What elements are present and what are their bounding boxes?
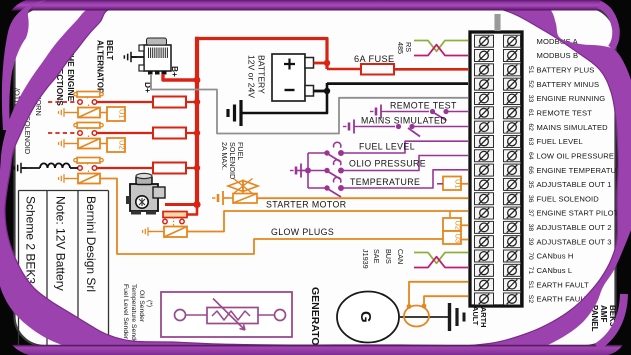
svg-text:J1939: J1939 [361,249,370,269]
solenoid actuator box [233,194,257,204]
terminal row CANbus H 70 [475,250,574,262]
switch temperature sender [324,170,468,197]
label THE ENGINE CONNECTIONS [55,44,76,106]
switch fuel level sender [324,141,468,162]
svg-text:ADJUSTABLE OUT 3: ADJUSTABLE OUT 3 [537,237,612,246]
svg-text:51: 51 [527,66,534,74]
svg-text:S1: S1 [527,280,534,289]
label EARTH FAULT vertical [471,302,488,327]
svg-text:GLOW PLUGS: GLOW PLUGS [271,227,334,237]
svg-text:71: 71 [527,267,534,275]
wire red B+ from alternator [163,74,196,80]
wire red main vertical bus [195,37,199,205]
switch S mains simulated [360,124,468,137]
svg-text:FUEL SOLENOID: FUEL SOLENOID [537,194,600,203]
wire red bus to starter relay contact [187,205,197,215]
terminal row MODBUS B [475,50,579,62]
svg-text:38: 38 [527,224,534,232]
label STARTER MOTOR [266,200,346,210]
svg-text:S2: S2 [527,295,534,304]
terminal row MODBUS A [475,35,579,47]
connector plug fuel solenoid [212,191,233,205]
svg-text:MAINS SIMULATED: MAINS SIMULATED [361,116,447,126]
label Bernini Design Srl [84,196,98,292]
label Note: 12V Battery [54,196,68,291]
wire black battery minus [242,83,468,113]
svg-text:37: 37 [527,209,534,217]
svg-text:33: 33 [527,95,534,103]
label CAN BUS SAE J1939 [361,249,405,269]
connector plug remote test [370,105,387,119]
ground L1 [14,163,26,173]
valve fuel solenoid [228,179,258,194]
svg-text:FUEL LEVEL: FUEL LEVEL [537,137,583,146]
relay K4 coil box [164,227,187,238]
corner arc bottom-right [597,294,624,347]
wire CAN twisted pair [414,253,468,264]
svg-text:62: 62 [527,123,534,131]
svg-text:36: 36 [527,195,534,203]
ground battery GND1 [228,100,241,126]
svg-text:39: 39 [527,238,534,246]
wire red battery plus to terminal 51 [394,68,468,71]
corner black top-right [600,0,631,68]
terminal row LOW OIL PRESSURE 64 [475,150,615,162]
label /HORN /STOP SOLENOID /OTHER [13,88,44,154]
relay K2 (stop solenoid) with fuse F2 and module U2 [48,132,76,134]
label GLOW PLUGS [271,227,334,237]
terminal block TB1 [470,32,522,306]
connector plug mains simulated [343,120,360,134]
svg-text:BATTERY PLUS: BATTERY PLUS [537,66,595,75]
svg-text:ENGINE START PILOT: ENGINE START PILOT [537,209,619,218]
wire orange earth fault S2 [424,296,468,304]
svg-text:ALTERNATOR: ALTERNATOR [96,40,105,94]
svg-text:STARTER MOTOR: STARTER MOTOR [266,200,346,210]
ground K4 [143,227,164,236]
label oil/temperature/fuel senders [122,284,153,347]
label MAINS SIMULATED [361,116,447,126]
svg-text:BUS: BUS [384,249,393,264]
svg-text:ADJUSTABLE OUT 2: ADJUSTABLE OUT 2 [537,223,612,232]
svg-text:CANbus L: CANbus L [537,266,573,275]
svg-text:BATTERY MINUS: BATTERY MINUS [537,80,600,89]
label OLIO PRESSURE [349,159,426,169]
svg-text:LOW OIL PRESSURE: LOW OIL PRESSURE [537,151,615,160]
svg-text:12V or 24V: 12V or 24V [247,55,257,98]
svg-text:485: 485 [396,42,405,54]
svg-text:U3: U3 [454,234,463,244]
label TEMPERATURE [350,177,420,187]
label 6A FUSE [354,54,395,64]
relay K3 (coil) with fuse F3 [78,166,97,171]
switch S remote test [387,109,468,121]
svg-text:TEMPERATURE: TEMPERATURE [350,177,420,187]
alternator G1 [124,38,171,75]
label FUEL SOLENOID 2A MAX [220,142,245,179]
label FUEL LEVEL [359,142,415,152]
svg-text:BELT: BELT [105,40,114,60]
svg-text:MODBUS B: MODBUS B [537,51,579,60]
svg-text:AMF: AMF [599,305,608,322]
terminal row FUEL LEVEL 63 [475,135,583,147]
terminal row ADJUSTABLE OUT 2 38 [475,221,612,233]
svg-text:61: 61 [527,109,534,117]
label Scheme 2 BEK3 [24,196,38,310]
connector plug sender common [290,164,307,178]
svg-text:SAE: SAE [372,249,381,264]
table scheme notes [19,191,109,347]
svg-text:ENGINE TEMPERATURE: ENGINE TEMPERATURE [537,166,628,175]
svg-text:52: 52 [527,80,534,88]
svg-text:64: 64 [527,152,534,160]
wire red 6A fuse feed [327,68,361,71]
svg-text:(*): (*) [146,300,153,307]
wire red bus to starter motor [165,201,201,208]
corner arc top-right [599,5,616,48]
svg-text:OLIO PRESSURE: OLIO PRESSURE [349,159,426,169]
svg-text:U1: U1 [118,109,127,119]
wire orange earth fault S1 [409,282,468,305]
bottom purple bar [0,345,631,355]
terminal row FUEL SOLENOID 36 [475,193,600,205]
svg-text:63: 63 [527,138,534,146]
oil sender rheostat box [161,292,292,337]
wire purple sender common bus [296,153,327,188]
wire orange fuel solenoid to terminal 36 [257,197,468,199]
generator G [337,292,399,343]
svg-text:BATTERY: BATTERY [257,55,267,94]
svg-text:U2: U2 [118,140,127,150]
svg-text:6A FUSE: 6A FUSE [354,54,395,64]
wire gray shield stub [495,14,501,31]
starter motor M1 [126,173,165,214]
svg-text:REMOTE TEST: REMOTE TEST [537,109,593,118]
fuse F4 6A [361,64,394,75]
svg-text:70: 70 [527,252,534,260]
svg-text:ADJUSTABLE OUT 1: ADJUSTABLE OUT 1 [537,180,612,189]
svg-text:Fuel Level Sender: Fuel Level Sender [122,284,129,340]
wire gray D+ engine running [151,74,468,134]
label RS 485 [396,42,413,54]
terminal row MAINS SIMULATED 62 [475,121,609,133]
label D+ [143,82,153,93]
svg-text:GENERATOR: GENERATOR [309,287,321,354]
wire orange starter pilot [187,211,468,232]
label B+ [170,66,180,77]
svg-text:2A MAX.: 2A MAX. [220,142,229,170]
module U2 adjustable out 2 [443,211,468,231]
label 12V or 24V BATTERY [247,55,267,98]
svg-text:ENGINE RUNNING: ENGINE RUNNING [537,94,606,103]
label GENERATOR [309,287,321,354]
label BEK3 AMF PANEL [590,305,617,332]
label BELT ALTERNATOR [96,40,115,94]
terminal row ADJUSTABLE OUT 1 35 [475,178,612,190]
terminal row ENGINE START PILOT 37 [475,207,619,219]
terminal row CANbus L 71 [475,264,573,276]
node junction bus B+ [194,77,201,84]
svg-text:G: G [357,311,374,323]
corner arc top-left [2,0,46,130]
svg-text:CAN: CAN [396,249,405,264]
label REMOTE TEST [390,101,457,111]
svg-text:FUEL LEVEL: FUEL LEVEL [359,142,415,152]
terminal row ADJUSTABLE OUT 3 39 [475,236,612,248]
ground generator earth [450,303,465,331]
terminal row ENGINE RUNNING 33 [475,92,606,104]
wire orange glow plugs [100,179,443,255]
svg-text:EARTH FAULT: EARTH FAULT [537,280,590,289]
terminal row BATTERY PLUS 51 [475,64,595,76]
terminal row EARTH FAULT S2 [475,293,590,305]
terminal row BATTERY MINUS 52 [475,78,600,90]
svg-text:Note: 12V Battery: Note: 12V Battery [54,196,68,291]
svg-text:B+: B+ [170,66,180,77]
wire red battery plus stub [314,60,331,66]
inductor L1 stop solenoid coil [22,163,78,168]
terminal row ENGINE TEMPERATURE 66 [475,164,628,176]
svg-text:Oil Sender: Oil Sender [138,290,145,323]
svg-text:66: 66 [527,166,534,174]
wire RS485 twisted pair MODBUS [414,41,468,52]
wire red bus top to battery [195,39,327,70]
battery BT1 12V/24V [272,54,314,101]
svg-text:Bernini Design Srl: Bernini Design Srl [84,196,98,292]
svg-text:35: 35 [527,181,534,189]
current transformer toroid earth fault [404,304,429,327]
module U3 adjustable out 3 [443,231,468,244]
switch oil pressure sender [324,156,468,180]
terminal row REMOTE TEST 61 [475,107,593,119]
wire black generator to earth [399,316,449,318]
svg-text:Temperature Sender: Temperature Sender [130,284,137,347]
svg-text:MAINS SIMULATED: MAINS SIMULATED [537,123,609,132]
svg-text:CANbus H: CANbus H [537,252,574,261]
relay K4 starter contact bar [163,212,187,227]
module U1 adjustable out 1 [437,177,468,191]
svg-text:REMOTE TEST: REMOTE TEST [390,101,457,111]
relay K1 (horn) with fuse F1 and module U1 [48,101,76,103]
terminal row EARTH FAULT S1 [475,279,590,291]
